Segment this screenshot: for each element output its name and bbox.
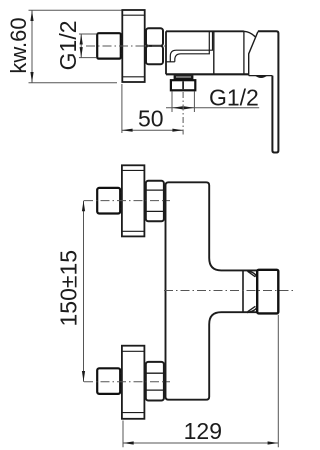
svg-text:G1/2: G1/2 bbox=[55, 20, 81, 70]
lever blade end (front view) bbox=[257, 270, 278, 314]
wall flange (side view) bbox=[122, 10, 144, 82]
hex nut (side view, two chamfer bands) bbox=[146, 28, 163, 46]
main horizontal centerline (front view) bbox=[164, 290, 295, 292]
top inlet centerline (front view) bbox=[84, 200, 170, 202]
top inlet: wall flange bbox=[122, 165, 144, 236]
cartridge dome (side view) bbox=[244, 31, 255, 74]
centerline inlet axis (side view) bbox=[86, 45, 167, 47]
dimension 129 bbox=[123, 315, 278, 448]
body (front view) bbox=[166, 182, 258, 399]
inlet fitting (side view) bbox=[97, 33, 121, 58]
grip dimple under lever (side view) bbox=[255, 76, 267, 78]
bottom inlet: square fitting bbox=[97, 368, 120, 394]
bottom inlet: stub bbox=[120, 373, 122, 389]
top inlet: stub bbox=[120, 193, 122, 209]
dimension G1/2 (outlet) bbox=[166, 92, 259, 113]
svg-text:kw.60: kw.60 bbox=[6, 17, 31, 73]
bottom inlet centerline (front view) bbox=[84, 381, 170, 383]
bottom inlet: hex nut bbox=[146, 362, 164, 401]
internal waterway (side view) bbox=[166, 31, 213, 62]
bottom inlet: wall flange bbox=[122, 346, 144, 419]
outlet centerline (dashed vertical) bbox=[182, 92, 184, 135]
outlet hex nut (side view) bbox=[171, 80, 195, 90]
dimension G1/2 (top, inlet thread) bbox=[79, 34, 96, 58]
top inlet: hex nut bbox=[146, 181, 164, 222]
dimension kw.60 bbox=[29, 10, 123, 82]
top inlet: square fitting bbox=[97, 188, 120, 214]
svg-text:150±15: 150±15 bbox=[56, 250, 82, 327]
neck between fitting and flange bbox=[121, 39, 123, 54]
svg-text:G1/2: G1/2 bbox=[209, 85, 259, 111]
svg-text:129: 129 bbox=[184, 418, 222, 444]
dimension 50 bbox=[122, 84, 183, 133]
body (side view) bbox=[166, 31, 249, 74]
lever handle (side view) bbox=[249, 31, 279, 152]
handle cone (front view) bbox=[243, 270, 257, 312]
outlet stub (side view) bbox=[174, 75, 194, 80]
svg-text:50: 50 bbox=[138, 105, 164, 131]
dimension 150±15 bbox=[83, 201, 85, 382]
